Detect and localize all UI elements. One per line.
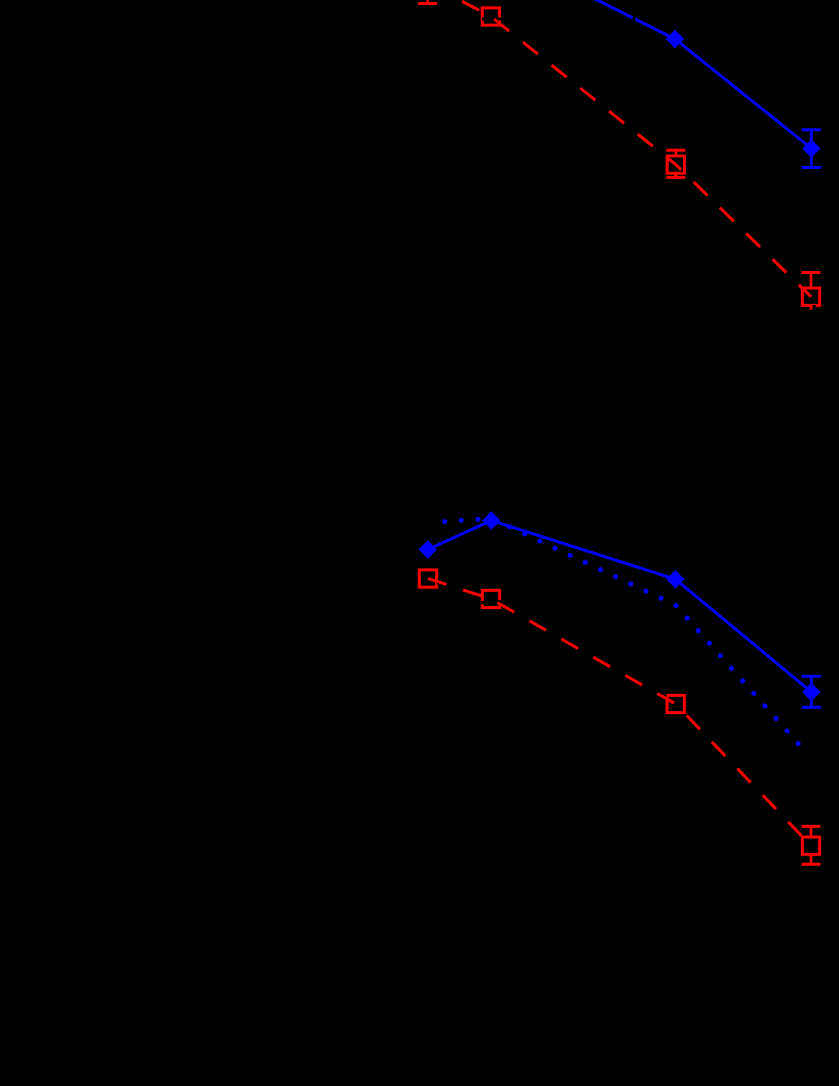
middle blue errorbar D4 top cap: [802, 675, 821, 678]
top red errorbar point3 vline clipped at panel bottom: [810, 273, 813, 310]
black overlay notch on blue line: [633, 12, 636, 24]
black overlay bar across P1 square (hidden series cap): [482, 18, 501, 21]
middle blue diamond marker D1: [419, 540, 437, 558]
middle red square marker S4: [802, 837, 819, 854]
black overlay bite on S3 square top-left corner: [663, 693, 666, 697]
middle red dashed series line: [428, 579, 811, 846]
middle blue diamond marker D3: [666, 570, 684, 588]
top blue errorbar bottom cap: [802, 166, 821, 169]
middle red square marker S1: [419, 570, 436, 587]
top red square marker P1: [482, 8, 499, 25]
top blue diamond marker D2: [802, 139, 820, 157]
top red errorbar point0 vline: [426, 0, 429, 2]
middle blue errorbar D4 bottom cap: [802, 706, 821, 709]
middle red square marker S2: [482, 590, 499, 607]
top blue errorbar top cap: [802, 128, 821, 131]
top red errorbar point3 top cap: [802, 271, 821, 274]
top red errorbar point2 top cap: [666, 149, 685, 152]
middle red errorbar S4 top cap: [802, 825, 821, 828]
middle blue diamond marker D4: [802, 683, 820, 701]
top red errorbar point2 vline: [674, 150, 677, 177]
middle blue errorbar D4 vline: [810, 676, 813, 707]
middle blue diamond marker D2: [482, 511, 500, 529]
black overlay bite on P3 square bottom edge: [813, 305, 816, 309]
middle blue solid series line: [428, 521, 812, 693]
middle red errorbar S4 bottom cap: [802, 863, 821, 866]
black overlay gap on S1 square right edge: [437, 580, 442, 585]
top red square marker P2: [667, 156, 684, 173]
black overlay gap on S2 square left edge: [479, 601, 484, 604]
top red square marker P3: [802, 288, 819, 305]
top blue diamond marker D1: [666, 30, 684, 48]
top red errorbar point2 bottom cap: [666, 176, 685, 179]
top blue solid series line: [492, 0, 812, 149]
top blue errorbar vline: [810, 130, 813, 168]
top red errorbar point0 bottom cap: [418, 2, 437, 5]
black overlay gap on S2 square right edge: [498, 600, 503, 603]
middle blue dotted series line: [436, 518, 803, 749]
top red dashed series line: [428, 0, 811, 297]
middle red square marker S3: [667, 695, 684, 712]
middle red errorbar S4 vline: [810, 826, 813, 864]
